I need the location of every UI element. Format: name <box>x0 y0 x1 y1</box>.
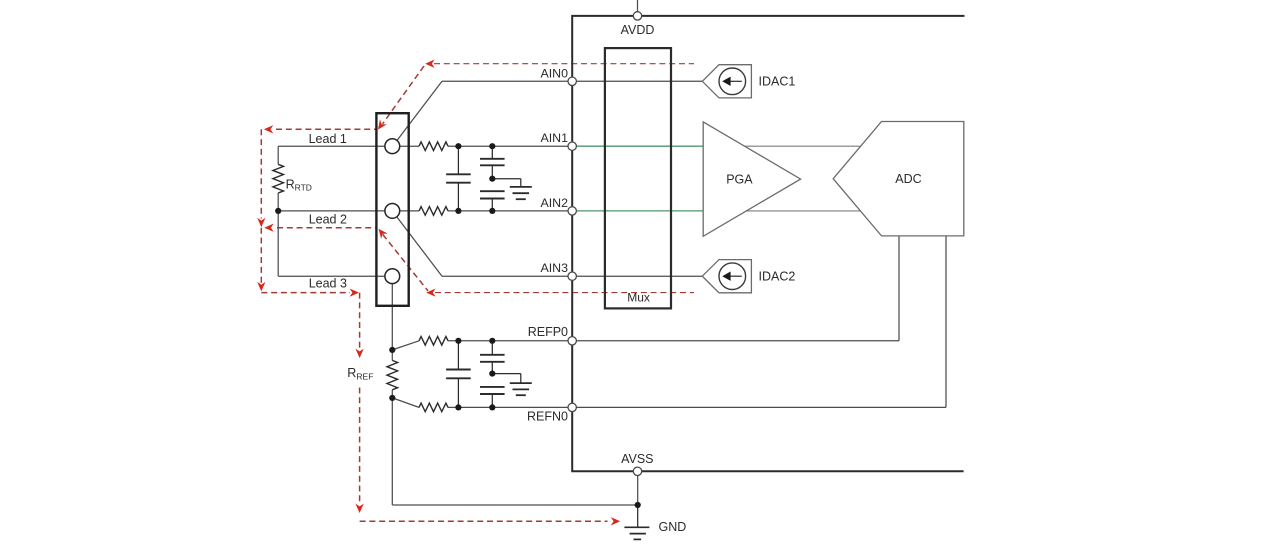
wire AIN2 resistor to pin <box>448 210 572 212</box>
resistor filter REFN0 <box>419 403 448 412</box>
wire AIN0 diagonal to Lead 1 connector <box>397 81 442 140</box>
PGA amplifier triangle <box>703 122 800 236</box>
arrow down at Lead 2 level <box>257 218 265 227</box>
arrow up-left on IDAC2 diagonal <box>379 229 388 239</box>
pin AVDD <box>633 12 641 20</box>
ADC chip outline <box>572 16 964 471</box>
svg-text:REF: REF <box>356 371 373 381</box>
svg-text:IDAC1: IDAC1 <box>759 75 796 89</box>
pin AIN1 <box>568 142 576 150</box>
pin AVSS <box>633 467 641 475</box>
wire REFN0 resistor to pin <box>448 406 572 408</box>
svg-text:Lead 3: Lead 3 <box>309 276 347 290</box>
arrow on diagonal into connector (Lead 1) <box>378 120 387 130</box>
svg-text:ADC: ADC <box>895 172 921 186</box>
pin REFN0 <box>568 403 576 411</box>
wire REFN0 internal to ADC <box>572 406 946 408</box>
wire RREF bottom to GND rail <box>391 398 393 505</box>
wire Lead 3 <box>278 275 385 277</box>
wire Lead 3 connector down to RREF <box>391 284 393 350</box>
svg-text:RTD: RTD <box>295 183 312 193</box>
ADC block <box>833 122 964 236</box>
wire AIN1 resistor to pin <box>448 145 572 147</box>
Mux block <box>605 48 671 308</box>
Lead 3 current path (dashed) <box>261 292 350 294</box>
resistor RREF <box>387 360 398 389</box>
svg-text:IDAC2: IDAC2 <box>759 269 796 283</box>
arrow left at Lead 2 end <box>264 224 273 232</box>
pin AIN3 <box>568 272 576 280</box>
ground AIN filter <box>492 178 521 180</box>
connector terminal Lead 3 <box>385 269 400 284</box>
capacitor REFP0 to gnd <box>491 341 493 355</box>
svg-text:REFP0: REFP0 <box>528 325 568 339</box>
ground REF filter <box>492 373 521 375</box>
IDAC2 arrow <box>728 275 742 277</box>
pin REFP0 <box>568 337 576 345</box>
wire AVDD stub <box>637 0 639 12</box>
junction AIN1 b <box>489 143 495 149</box>
pin AIN2 <box>568 207 576 215</box>
capacitor differential AIN <box>457 146 459 174</box>
wire REFP0 internal to ADC <box>572 340 899 342</box>
arrow down at bottom of RREF path <box>355 504 363 513</box>
svg-text:AIN2: AIN2 <box>540 196 568 210</box>
svg-text:AIN1: AIN1 <box>540 131 568 145</box>
svg-text:Lead 1: Lead 1 <box>309 132 347 146</box>
svg-text:AIN0: AIN0 <box>540 66 568 80</box>
capacitor differential REF <box>457 341 459 370</box>
resistor RRTD <box>273 164 284 193</box>
wire REFP0 resistor to pin <box>448 340 572 342</box>
wire PGA to ADC lower <box>735 210 875 212</box>
wire AIN0 (IDAC1 to pin) <box>442 80 703 82</box>
IDAC2 excitation current path (dashed, from AIN3) <box>435 292 694 294</box>
wire RREF node stubs <box>391 350 393 361</box>
capacitor AIN1 to gnd <box>491 146 493 159</box>
svg-text:AIN3: AIN3 <box>540 261 568 275</box>
IDAC1 circle <box>719 68 746 95</box>
svg-text:R: R <box>347 366 356 380</box>
svg-text:GND: GND <box>659 520 687 534</box>
RREF current path lower segment <box>359 388 361 505</box>
arrow left at Lead 1 corner <box>264 125 273 133</box>
RTD connector block <box>376 113 408 306</box>
wire Lead 1 / AIN1 input <box>278 145 419 147</box>
arrow left on IDAC2 path <box>426 288 435 296</box>
wire GND rail <box>392 504 637 506</box>
svg-text:Lead 2: Lead 2 <box>309 213 347 227</box>
left vertical current path upper segment <box>260 129 262 218</box>
wire RTD left bottom <box>277 193 279 276</box>
svg-text:Mux: Mux <box>627 291 650 305</box>
current source IDAC2 body <box>702 260 751 293</box>
junction AIN1 a <box>455 143 461 149</box>
capacitor REFN0 to gnd <box>491 386 493 388</box>
junction REF cap midpoint <box>489 371 495 377</box>
wire REFP0 diagonal <box>392 341 419 350</box>
resistor filter AIN1 <box>419 142 448 151</box>
arrow down above RREF label <box>355 349 363 358</box>
arrow right into GND <box>611 517 620 525</box>
junction RREF top <box>389 347 395 353</box>
junction REFP0 b <box>489 338 495 344</box>
svg-text:PGA: PGA <box>726 172 753 186</box>
junction AIN2 a <box>455 208 461 214</box>
junction REFN0 b <box>489 404 495 410</box>
junction REFN0 a <box>455 404 461 410</box>
junction GND rail node <box>635 502 641 508</box>
arrow left on IDAC1 path <box>425 60 434 68</box>
wire AIN3 diagonal from Lead 2 connector <box>397 217 442 276</box>
ground GND symbol <box>637 505 639 527</box>
junction AIN cap midpoint <box>489 176 495 182</box>
wire REFN0 diagonal <box>392 398 419 408</box>
wire RTD left top <box>277 146 279 164</box>
wire PGA to ADC upper <box>735 145 875 147</box>
resistor filter AIN2 <box>419 207 448 216</box>
current source IDAC1 body <box>702 65 751 98</box>
junction RREF bottom <box>389 395 395 401</box>
arrow right toward RREF <box>350 288 359 296</box>
RREF current path upper segment <box>359 293 361 348</box>
IDAC2 diagonal current path (Lead2 to AIN3) <box>383 235 428 291</box>
IDAC2 circle <box>719 263 746 290</box>
resistor filter REFP0 <box>419 337 448 346</box>
connector terminal Lead 2 <box>385 204 400 219</box>
return current path to GND (dashed) <box>360 520 608 522</box>
pin AIN0 <box>568 77 576 85</box>
svg-text:REFN0: REFN0 <box>527 409 568 423</box>
junction REFP0 a <box>455 338 461 344</box>
green selected channel AIN1 <box>576 145 703 147</box>
svg-text:R: R <box>286 177 295 191</box>
junction RTD bottom node <box>275 208 281 214</box>
svg-text:AVSS: AVSS <box>621 452 653 466</box>
connector terminal Lead 1 <box>385 139 400 154</box>
junction AIN2 b <box>489 208 495 214</box>
IDAC1 excitation current path (dashed, to AIN0) <box>434 63 694 65</box>
Lead 1 current path (dashed) <box>276 128 377 130</box>
IDAC1 arrow <box>728 80 742 82</box>
arrow down at Lead 3 level <box>257 282 265 291</box>
wire Lead 2 / AIN2 input <box>278 210 419 212</box>
IDAC1 path diagonal to Lead 1 <box>383 66 424 124</box>
green selected channel AIN2 <box>576 210 703 212</box>
wire AIN3 (pin to IDAC2) <box>442 275 703 277</box>
Lead 2 current path (dashed) <box>277 227 376 229</box>
left vertical current path lower segment <box>260 228 262 283</box>
svg-text:AVDD: AVDD <box>621 23 655 37</box>
capacitor AIN2 to gnd <box>491 190 493 192</box>
wire AVSS to GND rail <box>637 471 639 505</box>
